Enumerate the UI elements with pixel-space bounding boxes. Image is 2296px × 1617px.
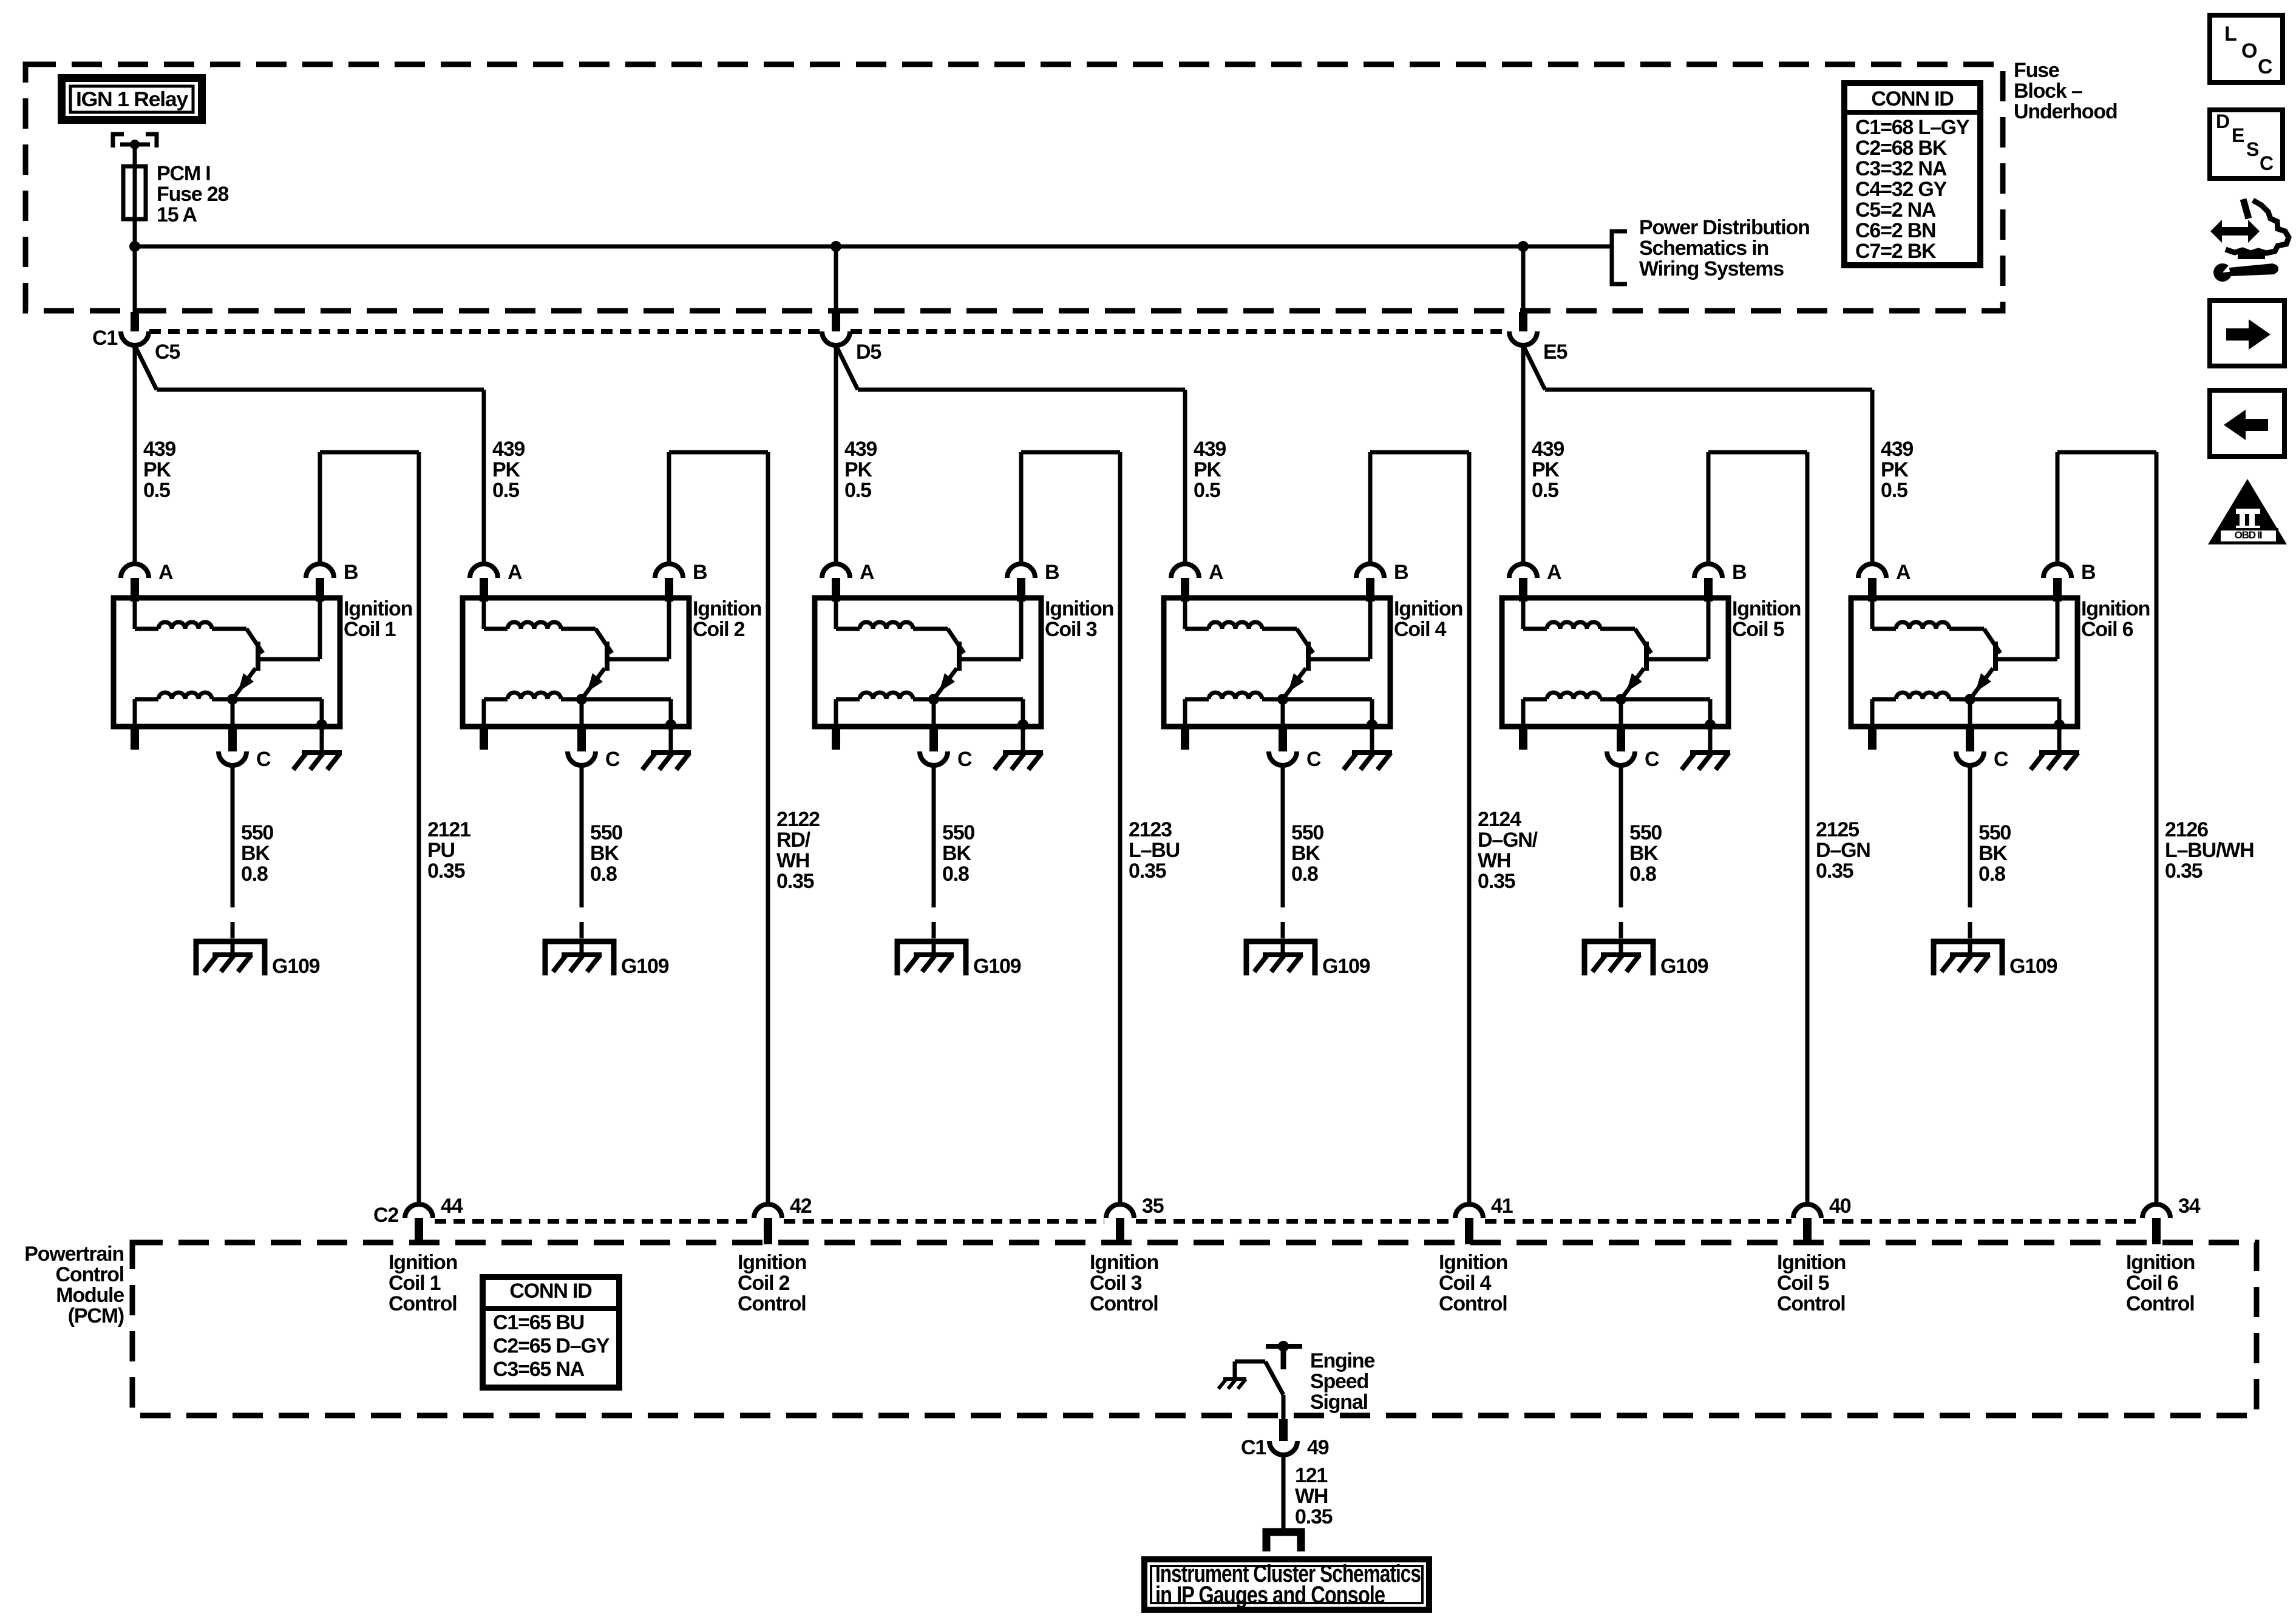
svg-text:C1=68 L–GY: C1=68 L–GY (1855, 116, 1970, 139)
svg-text:C2: C2 (373, 1204, 398, 1227)
svg-text:Ignition: Ignition (389, 1251, 457, 1274)
coil 3 secondary stub (832, 727, 840, 750)
wire 550 BK (coil 4) (1281, 765, 1285, 907)
PCM pin 49 connector (1279, 1419, 1288, 1441)
svg-text:550: 550 (590, 821, 622, 844)
emitter to ground wire (coil 3) (1021, 699, 1025, 727)
ignition coil 6 pin C connector (1966, 727, 1974, 751)
svg-text:Fuse 28: Fuse 28 (157, 183, 229, 206)
connector C5 arc (121, 331, 149, 345)
svg-text:BK: BK (1629, 842, 1659, 865)
emitter to ground wire (coil 5) (1708, 699, 1713, 727)
icon LOC box (2210, 15, 2283, 83)
svg-text:0.35: 0.35 (427, 859, 465, 883)
wire bus to D5 (834, 246, 838, 312)
svg-text:34: 34 (2178, 1195, 2201, 1218)
svg-text:2121: 2121 (427, 818, 470, 841)
connector E5 stub (1519, 312, 1527, 331)
svg-text:G109: G109 (1322, 955, 1370, 978)
ignition coil 2 pin C connector (577, 727, 586, 751)
svg-text:B: B (1045, 561, 1059, 584)
ground G109 (coil 2) (545, 941, 614, 975)
svg-text:C7=2 BK: C7=2 BK (1855, 240, 1937, 263)
svg-text:0.35: 0.35 (1816, 859, 1853, 883)
junction at D5 riser (830, 241, 841, 252)
svg-text:Control: Control (1090, 1292, 1158, 1315)
svg-text:O: O (2241, 39, 2257, 63)
svg-text:C: C (1645, 748, 1659, 771)
svg-text:439: 439 (1194, 438, 1226, 461)
svg-text:Fuse: Fuse (2014, 59, 2059, 82)
wire C5 to coil 1 pin A (133, 345, 137, 564)
junction at E5 riser (1518, 241, 1529, 252)
PCM pin 34 connector (2142, 1204, 2170, 1218)
svg-text:C6=2 BN: C6=2 BN (1855, 219, 1935, 242)
svg-text:0.5: 0.5 (1532, 479, 1558, 502)
svg-text:BK: BK (942, 842, 971, 865)
svg-text:Coil 3: Coil 3 (1045, 618, 1097, 641)
svg-text:Signal: Signal (1310, 1391, 1368, 1414)
svg-text:L–BU: L–BU (1129, 839, 1180, 862)
ignition coil 1 pin B connector (306, 564, 334, 578)
coil 1 primary winding (133, 602, 137, 629)
svg-text:S: S (2246, 138, 2259, 160)
svg-text:Engine: Engine (1310, 1349, 1374, 1372)
coil 6 internal ground (2057, 727, 2062, 753)
ground G109 (coil 4) (1246, 941, 1315, 975)
wire coil 4 pin B to PCM (circuit 2124) (1368, 452, 1373, 564)
powertrain control module dashed box (132, 1242, 2257, 1415)
svg-text:OBD II: OBD II (2235, 529, 2262, 541)
svg-text:E: E (2232, 124, 2244, 146)
svg-text:439: 439 (1881, 438, 1913, 461)
svg-text:Coil 4: Coil 4 (1439, 1272, 1492, 1295)
svg-text:Control: Control (1439, 1292, 1507, 1315)
wire coil 1 pin B to PCM (circuit 2121) (318, 452, 322, 564)
wire 550 BK (coil 1) (231, 765, 235, 907)
svg-text:Control: Control (738, 1292, 806, 1315)
svg-text:C: C (957, 748, 972, 771)
svg-text:G109: G109 (1660, 955, 1708, 978)
ground G109 (coil 3) (897, 941, 966, 975)
svg-text:49: 49 (1307, 1436, 1329, 1459)
svg-text:2123: 2123 (1129, 818, 1172, 841)
svg-text:35: 35 (1142, 1195, 1164, 1218)
ignition coil 4 pin A connector (1171, 564, 1199, 578)
svg-text:15 A: 15 A (157, 203, 197, 226)
svg-text:0.5: 0.5 (143, 479, 170, 502)
coil 5 secondary winding (1547, 693, 1600, 699)
PCM pin 42 connector (754, 1204, 782, 1218)
PCM pin 35 connector (1106, 1204, 1134, 1218)
svg-text:550: 550 (942, 821, 974, 844)
svg-text:439: 439 (844, 438, 877, 461)
svg-text:PU: PU (427, 839, 455, 862)
svg-text:PK: PK (143, 458, 171, 481)
ignition coil 4 pin B connector (1356, 564, 1384, 578)
svg-text:D5: D5 (856, 341, 881, 364)
icon DESC box (2210, 110, 2283, 178)
ignition coil 2 box (463, 598, 689, 727)
base wire to pin B (coil 3) (962, 657, 1021, 662)
svg-text:A: A (1896, 561, 1911, 584)
coil 1 secondary winding (158, 693, 212, 699)
coil 2 internal ground (669, 727, 673, 753)
PCM CONN ID table (483, 1277, 619, 1388)
svg-text:Control: Control (1777, 1292, 1845, 1315)
svg-text:BK: BK (1978, 842, 2008, 865)
svg-text:(PCM): (PCM) (68, 1304, 124, 1327)
svg-text:439: 439 (1532, 438, 1564, 461)
ground G109 (coil 5) (1584, 941, 1653, 975)
coil 5 secondary stub (1519, 727, 1527, 750)
off-page connector to instrument cluster (1266, 1532, 1301, 1551)
svg-text:C5=2 NA: C5=2 NA (1855, 198, 1936, 222)
svg-text:0.5: 0.5 (492, 479, 519, 502)
svg-text:CONN ID: CONN ID (1871, 87, 1954, 110)
svg-text:40: 40 (1829, 1195, 1851, 1218)
fuse 28 symbol (123, 166, 146, 219)
coil 4 secondary winding (1209, 693, 1262, 699)
svg-text:A: A (158, 561, 173, 584)
junction at box bottom (coil 5) (1705, 719, 1716, 730)
svg-text:121: 121 (1295, 1464, 1327, 1487)
svg-text:0.8: 0.8 (1291, 863, 1318, 886)
svg-text:41: 41 (1491, 1195, 1513, 1218)
svg-text:B: B (2081, 561, 2096, 584)
svg-text:B: B (1732, 561, 1747, 584)
junction at fuse/bus (129, 241, 140, 252)
emitter junction (coil 1) (227, 694, 238, 705)
svg-text:Coil 6: Coil 6 (2126, 1272, 2178, 1295)
wire bus to E5 (1521, 246, 1526, 312)
wire coil 5 pin B to PCM (circuit 2125) (1707, 452, 1711, 564)
coil 2 secondary stub (480, 727, 488, 750)
wire coil 2 pin B to PCM (circuit 2122) (667, 452, 671, 564)
relay contact symbol (113, 134, 124, 147)
svg-text:WH: WH (776, 849, 809, 872)
icon adjust hand and wrench (2210, 220, 2260, 243)
svg-text:BK: BK (241, 842, 270, 865)
coil 3 internal ground (1021, 727, 1025, 753)
svg-text:C3=32 NA: C3=32 NA (1855, 157, 1947, 180)
ignition coil 3 box (815, 598, 1041, 727)
svg-text:B: B (1394, 561, 1408, 584)
svg-text:Schematics in: Schematics in (1639, 237, 1768, 260)
svg-text:Ignition: Ignition (1090, 1251, 1158, 1274)
wire 550 BK (coil 6) (1968, 765, 1972, 907)
svg-text:Coil 3: Coil 3 (1090, 1272, 1142, 1295)
coil 2 primary winding (482, 602, 486, 629)
svg-text:42: 42 (790, 1195, 812, 1218)
svg-text:Coil 5: Coil 5 (1777, 1272, 1829, 1295)
svg-text:44: 44 (441, 1195, 463, 1218)
svg-text:L: L (2224, 22, 2237, 46)
engine speed signal symbol (1266, 1344, 1302, 1349)
svg-text:WH: WH (1478, 849, 1510, 872)
base wire to pin B (coil 4) (1311, 657, 1370, 662)
wire D5 branch to coil 4 pin A (836, 345, 858, 390)
svg-text:0.35: 0.35 (2165, 859, 2203, 883)
PCM pin 44 connector (405, 1204, 433, 1218)
svg-text:Underhood: Underhood (2014, 100, 2118, 123)
wire coil 3 pin B to PCM (circuit 2123) (1019, 452, 1024, 564)
svg-text:IGN 1 Relay: IGN 1 Relay (76, 88, 188, 111)
ignition coil 6 pin B connector (2043, 564, 2071, 578)
ignition coil 6 box (1851, 598, 2077, 727)
svg-text:G109: G109 (621, 955, 669, 978)
svg-text:PK: PK (1532, 458, 1560, 481)
emitter junction (coil 2) (576, 694, 587, 705)
bus wire from fuse to power distribution (135, 245, 1612, 249)
connector C5 stub (131, 312, 139, 331)
svg-text:2126: 2126 (2165, 818, 2208, 841)
svg-text:C1=65 BU: C1=65 BU (493, 1311, 584, 1334)
wire E5 to coil 5 pin A (1521, 345, 1526, 564)
emitter junction (coil 4) (1277, 694, 1288, 705)
connector dotted line C5 left segment (149, 329, 821, 334)
svg-text:Control: Control (56, 1263, 124, 1286)
svg-text:0.5: 0.5 (1194, 479, 1220, 502)
instrument cluster schematics box (1141, 1556, 1432, 1613)
icon OBD II triangle (2208, 479, 2287, 544)
emitter to ground wire (coil 1) (320, 699, 324, 727)
emitter to ground wire (coil 4) (1370, 699, 1374, 727)
svg-text:Coil 5: Coil 5 (1732, 618, 1784, 641)
svg-text:0.35: 0.35 (1478, 870, 1515, 893)
emitter junction (coil 5) (1615, 694, 1626, 705)
svg-text:A: A (1209, 561, 1223, 584)
coil 2 secondary winding (508, 693, 561, 699)
svg-text:B: B (693, 561, 707, 584)
coil 3 primary winding (834, 602, 838, 629)
svg-text:C1: C1 (1241, 1436, 1266, 1459)
ignition coil 1 pin C connector (228, 727, 237, 751)
ground G109 (coil 1) (196, 941, 265, 975)
fuse block - underhood dashed box (25, 64, 2003, 311)
svg-text:D–GN/: D–GN/ (1478, 829, 1538, 852)
coil 4 primary winding (1183, 602, 1187, 629)
ignition coil 2 pin B connector (655, 564, 683, 578)
svg-text:550: 550 (241, 821, 273, 844)
svg-text:0.8: 0.8 (241, 863, 268, 886)
ignition coil 5 pin A connector (1509, 564, 1537, 578)
svg-text:A: A (1547, 561, 1561, 584)
wire 550 BK (coil 5) (1619, 765, 1623, 907)
ignition coil 3 pin A connector (822, 564, 850, 578)
junction at box bottom (coil 6) (2054, 719, 2065, 730)
connector E5 arc (1509, 331, 1537, 345)
svg-text:C2=68 BK: C2=68 BK (1855, 137, 1948, 160)
svg-text:C: C (2258, 55, 2272, 78)
svg-text:Coil 1: Coil 1 (389, 1272, 441, 1295)
svg-text:C: C (256, 748, 271, 771)
base wire to pin B (coil 1) (260, 657, 320, 662)
svg-text:0.35: 0.35 (776, 870, 814, 893)
svg-text:C1: C1 (92, 327, 117, 350)
svg-text:Power Distribution: Power Distribution (1639, 216, 1810, 239)
svg-text:PCM I: PCM I (157, 162, 210, 185)
coil 1 internal ground (320, 727, 324, 753)
junction at box bottom (coil 1) (316, 719, 327, 730)
wire C1 drop (133, 219, 137, 312)
connector D5 arc (822, 331, 850, 345)
emitter junction (coil 6) (1965, 694, 1975, 705)
connector dotted line C5 right segment (851, 329, 1509, 334)
svg-text:2125: 2125 (1816, 818, 1859, 841)
emitter to ground wire (coil 2) (669, 699, 673, 727)
ignition coil 2 pin A connector (470, 564, 498, 578)
svg-text:L–BU/WH: L–BU/WH (2165, 839, 2254, 862)
wire 550 BK (coil 3) (932, 765, 936, 907)
PCM pin 41 connector (1455, 1204, 1483, 1218)
junction at box bottom (coil 3) (1017, 719, 1028, 730)
ignition coil 1 pin A connector (121, 564, 149, 578)
svg-text:550: 550 (1978, 821, 2011, 844)
svg-text:0.8: 0.8 (942, 863, 969, 886)
coil 6 primary winding (1870, 602, 1875, 629)
svg-text:Ignition: Ignition (2126, 1251, 2195, 1274)
svg-text:BK: BK (1291, 842, 1320, 865)
svg-text:550: 550 (1291, 821, 1323, 844)
svg-text:Wiring Systems: Wiring Systems (1639, 257, 1784, 280)
svg-text:Coil 2: Coil 2 (738, 1272, 790, 1295)
svg-text:Block –: Block – (2014, 80, 2082, 103)
ignition coil 1 box (114, 598, 340, 727)
svg-text:0.8: 0.8 (590, 863, 617, 886)
svg-text:Ignition: Ignition (738, 1251, 806, 1274)
svg-text:2124: 2124 (1478, 808, 1521, 831)
svg-text:Ignition: Ignition (1732, 597, 1801, 620)
coil 1 secondary stub (131, 727, 139, 750)
base wire to pin B (coil 6) (1998, 657, 2057, 662)
svg-text:Control: Control (389, 1292, 457, 1315)
coil 3 secondary winding (860, 693, 913, 699)
coil 6 secondary winding (1896, 693, 1949, 699)
ignition coil 3 pin B connector (1007, 564, 1035, 578)
svg-text:Ignition: Ignition (1394, 597, 1462, 620)
svg-text:PK: PK (492, 458, 520, 481)
svg-text:PK: PK (1194, 458, 1221, 481)
transistor (coil 3) (948, 629, 964, 653)
ignition coil 5 box (1502, 598, 1728, 727)
svg-text:Ignition: Ignition (693, 597, 761, 620)
coil 5 internal ground (1708, 727, 1713, 753)
ground G109 (coil 6) (1934, 941, 2002, 975)
wire D5 to coil 3 pin A (834, 345, 838, 564)
svg-text:in IP Gauges and Console: in IP Gauges and Console (1155, 1582, 1385, 1609)
transistor (coil 2) (596, 629, 612, 653)
coil 6 secondary stub (1868, 727, 1877, 750)
svg-text:Ignition: Ignition (1777, 1251, 1846, 1274)
svg-text:C: C (1994, 748, 2008, 771)
svg-text:B: B (344, 561, 358, 584)
svg-text:C: C (2260, 152, 2274, 174)
svg-text:E5: E5 (1543, 341, 1567, 364)
svg-text:C5: C5 (155, 341, 180, 364)
svg-text:C: C (605, 748, 620, 771)
svg-text:PK: PK (844, 458, 872, 481)
coil 4 internal ground (1370, 727, 1374, 753)
svg-text:G109: G109 (973, 955, 1021, 978)
svg-text:C2=65 D–GY: C2=65 D–GY (493, 1335, 610, 1358)
svg-text:Control: Control (2126, 1292, 2194, 1315)
svg-text:0.35: 0.35 (1295, 1505, 1333, 1528)
svg-text:Ignition: Ignition (2081, 597, 2150, 620)
ignition coil 4 box (1164, 598, 1390, 727)
junction at box bottom (coil 4) (1367, 719, 1377, 730)
relay K: IGN 1 Relay label box (58, 74, 206, 124)
svg-text:A: A (860, 561, 874, 584)
svg-text:0.5: 0.5 (844, 479, 871, 502)
svg-text:Ignition: Ignition (1439, 1251, 1507, 1274)
svg-text:Coil 1: Coil 1 (344, 618, 396, 641)
svg-text:0.8: 0.8 (1629, 863, 1656, 886)
svg-text:Coil 2: Coil 2 (693, 618, 745, 641)
svg-text:C4=32 GY: C4=32 GY (1855, 178, 1948, 201)
fuse F28 wire (133, 166, 137, 246)
svg-text:G109: G109 (272, 955, 320, 978)
svg-text:CONN ID: CONN ID (509, 1280, 592, 1303)
svg-text:2122: 2122 (776, 808, 820, 831)
icon back arrow box (2210, 390, 2284, 456)
svg-text:WH: WH (1295, 1485, 1328, 1508)
transistor (coil 1) (246, 629, 263, 653)
svg-text:Powertrain: Powertrain (24, 1242, 124, 1266)
svg-text:439: 439 (492, 438, 525, 461)
svg-text:C: C (1306, 748, 1321, 771)
fuse block CONN ID table (1844, 83, 1980, 265)
svg-text:Ignition: Ignition (344, 597, 412, 620)
base wire to pin B (coil 2) (610, 657, 669, 662)
PCM pin 40 connector (1793, 1204, 1821, 1218)
svg-text:0.35: 0.35 (1129, 859, 1166, 883)
wire 550 BK (coil 2) (580, 765, 584, 907)
base wire to pin B (coil 5) (1649, 657, 1708, 662)
connector D5 stub (832, 312, 840, 331)
svg-text:D: D (2216, 110, 2229, 132)
svg-text:0.8: 0.8 (1978, 863, 2005, 886)
svg-text:PK: PK (1881, 458, 1909, 481)
ignition coil 3 pin C connector (929, 727, 938, 751)
power distribution bracket (1612, 231, 1627, 284)
engine speed signal ground (1223, 1377, 1246, 1381)
PCM connector dotted line (435, 1219, 752, 1224)
emitter junction (coil 3) (928, 694, 939, 705)
svg-text:D–GN: D–GN (1816, 839, 1870, 862)
ignition coil 4 pin C connector (1279, 727, 1287, 751)
svg-text:G109: G109 (2009, 955, 2057, 978)
svg-text:C3=65 NA: C3=65 NA (493, 1358, 585, 1381)
coil 4 secondary stub (1181, 727, 1189, 750)
svg-text:Speed: Speed (1310, 1370, 1368, 1393)
svg-text:Ignition: Ignition (1045, 597, 1113, 620)
svg-text:Coil 6: Coil 6 (2081, 618, 2133, 641)
transistor (coil 5) (1635, 629, 1651, 653)
wire C5 branch to coil 2 pin A (135, 345, 157, 390)
ignition coil 6 pin A connector (1858, 564, 1886, 578)
icon forward arrow box (2210, 300, 2284, 366)
transistor (coil 6) (1984, 629, 2000, 653)
emitter to ground wire (coil 6) (2057, 699, 2062, 727)
wire coil 6 pin B to PCM (circuit 2126) (2056, 452, 2060, 564)
wire E5 branch to coil 6 pin A (1523, 345, 1545, 390)
wire 121 WH (1282, 1455, 1286, 1529)
svg-text:Coil 4: Coil 4 (1394, 618, 1447, 641)
transistor (coil 4) (1297, 629, 1313, 653)
ignition coil 5 pin B connector (1694, 564, 1722, 578)
svg-text:A: A (508, 561, 522, 584)
